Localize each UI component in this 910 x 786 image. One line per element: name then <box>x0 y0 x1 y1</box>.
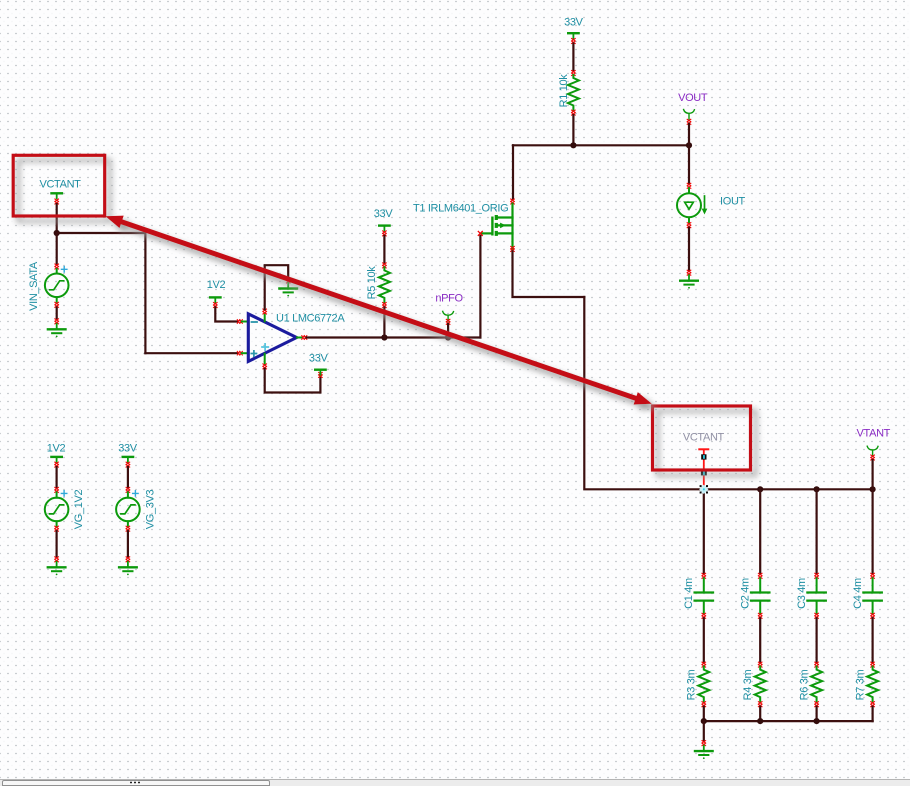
capacitor C2 <box>751 578 769 613</box>
svg-text:R5 10k: R5 10k <box>366 266 378 300</box>
ground at op-amp supply <box>279 283 297 297</box>
ground below VIN_SATA <box>48 324 66 338</box>
wire C1 to R3 <box>703 618 705 662</box>
node junction C4 top <box>870 486 876 492</box>
svg-text:C4 4m: C4 4m <box>852 578 864 609</box>
pin marks C1 bottom <box>702 613 706 618</box>
pin marks C1 top <box>702 573 706 578</box>
node junction R6 bottom <box>814 718 820 724</box>
wire 1V2 to op-amp minus input <box>215 308 237 322</box>
annotation red box around VCTANT top-left <box>13 155 105 216</box>
svg-text:IOUT: IOUT <box>720 196 746 208</box>
wire C4 branch top <box>871 489 873 573</box>
svg-text:VG_3V3: VG_3V3 <box>145 490 157 530</box>
svg-text:C1 4m: C1 4m <box>683 578 695 609</box>
wire R1 to node A <box>572 115 574 145</box>
op-amp U1 bottom supply stub <box>264 354 266 364</box>
pin mark T1 gate <box>478 231 482 235</box>
svg-text:1V2: 1V2 <box>47 443 66 455</box>
pin marks ground IOUT <box>687 270 691 275</box>
svg-text:1V2: 1V2 <box>207 279 226 291</box>
node 1V2 jumper above VG_1V2 <box>51 457 61 462</box>
svg-text:R1 10k: R1 10k <box>558 74 570 108</box>
capacitor C4 <box>863 578 881 613</box>
svg-text:VTANT: VTANT <box>857 428 891 440</box>
wire IOUT to ground <box>688 228 690 271</box>
svg-text:R6 3m: R6 3m <box>798 669 810 700</box>
svg-text:T1 IRLM6401_ORIG: T1 IRLM6401_ORIG <box>413 202 508 214</box>
wire VOUT node to IOUT <box>688 145 690 183</box>
pin marks ground VG_3V3 <box>126 557 130 562</box>
pin marks IOUT bottom <box>687 223 691 228</box>
pin marks R6 bottom <box>815 702 819 707</box>
op-amp U1 minus sign <box>252 321 258 323</box>
wire R7 to ground bus <box>871 707 873 721</box>
wire C4 to R7 <box>871 618 873 662</box>
pin marks 33V jumper R5 <box>383 231 387 236</box>
svg-text:33V: 33V <box>118 443 138 455</box>
capacitor C1 <box>695 578 713 613</box>
wire op-amp top supply to ground <box>265 265 289 309</box>
pin marks op-amp top supply <box>263 309 267 314</box>
wire VG_1V2 to ground <box>55 531 57 557</box>
svg-text:nPFO: nPFO <box>435 293 463 305</box>
resistor R7 <box>867 667 878 703</box>
node 33V jumper op-amp <box>315 370 325 375</box>
svg-text:R3 3m: R3 3m <box>686 669 698 700</box>
pin marks R4 bottom <box>758 702 762 707</box>
VIN_SATA plus sign <box>62 267 67 272</box>
wire node right <box>57 232 146 234</box>
wire gate riser <box>479 236 481 338</box>
pin marks R7 bottom <box>871 702 875 707</box>
annotation red box around VCTANT bottom <box>653 406 751 470</box>
resistor R6 <box>811 667 822 703</box>
pin marks R1 top <box>572 71 576 76</box>
wire C2 branch top <box>759 489 761 573</box>
wire node A to T1 drain <box>512 145 514 199</box>
pin marks R3 bottom <box>702 702 706 707</box>
bottom tab <box>2 780 270 786</box>
wire C1 branch top <box>703 489 705 573</box>
op-amp U1 output lead <box>297 337 302 339</box>
svg-text:VCTANT: VCTANT <box>683 432 725 444</box>
wire R4 to ground bus <box>759 707 761 721</box>
node junction nPFO <box>445 334 451 340</box>
pin marks 1V2 jumper VG_1V2 <box>55 462 59 467</box>
wire ground bus bottom <box>704 720 873 722</box>
wire T1 source down and right <box>513 251 585 297</box>
svg-text:R4 3m: R4 3m <box>742 669 754 700</box>
wire 33V to VG_3V3 <box>127 467 129 487</box>
pin marks 1V2 jumper <box>214 303 218 308</box>
node junction C2 top <box>757 486 763 492</box>
pin marks ground VIN_SATA <box>55 319 59 324</box>
pin marks T1 source <box>511 246 515 251</box>
op-amp U1 cyan plus marker <box>262 344 268 350</box>
node junction R1 bottom <box>570 142 576 148</box>
VG_3V3 plus sign <box>133 491 138 496</box>
wire 1V2 to VG_1V2 <box>55 467 57 487</box>
wire op-amp output bus <box>307 336 481 338</box>
pin marks ground VG_1V2 <box>55 557 59 562</box>
wire C3 branch top <box>815 489 817 573</box>
wire R6 to ground bus <box>815 707 817 721</box>
node VCTANT (bottom) selected jumper symbol <box>699 449 708 487</box>
wire C2 to R4 <box>759 618 761 662</box>
resistor R1 <box>568 75 579 111</box>
pin marks op-amp output <box>302 336 307 340</box>
svg-text:VG_1V2: VG_1V2 <box>73 490 85 530</box>
pin marks R7 top <box>871 662 875 667</box>
pin marks C3 top <box>815 573 819 578</box>
svg-text:VCTANT: VCTANT <box>39 179 81 191</box>
wire op-amp bottom supply to 33V <box>265 369 321 393</box>
svg-text:33V: 33V <box>309 353 329 365</box>
wire VTANT stem to bus <box>871 460 873 489</box>
ground below IOUT <box>680 275 698 289</box>
wire VG_3V3 to ground <box>127 531 129 557</box>
pin marks VG_1V2 + terminal <box>55 487 59 492</box>
IOUT direction arrow <box>702 196 708 215</box>
pin marks C4 bottom <box>871 613 875 618</box>
pin marks VCTANT jumper <box>55 199 59 204</box>
pin marks R5 bottom <box>383 303 387 308</box>
node VTANT Y symbol <box>867 446 878 456</box>
node junction at VIN_SATA top <box>54 230 60 236</box>
node junction R5 bottom <box>381 334 387 340</box>
op-amp U1 top supply stub <box>264 314 266 322</box>
node 33V jumper above VG_3V3 <box>123 457 133 462</box>
wire VOUT stem down <box>688 124 690 145</box>
selection cross at bus connection <box>699 485 708 494</box>
wire VCTANT jumper to node <box>56 204 58 233</box>
pin marks C4 top <box>871 573 875 578</box>
voltage source VIN_SATA <box>45 269 69 302</box>
node 33V jumper above R1 <box>568 33 578 38</box>
pin marks op-amp bottom supply <box>263 364 267 369</box>
pin marks R1 bottom <box>572 110 576 115</box>
wire ground stem bottom bank <box>703 721 705 741</box>
wire VCTANT bus to VTANT <box>704 488 873 490</box>
wire 33V to R1 <box>572 44 574 71</box>
node VCTANT (top-left) jumper symbol <box>52 193 62 198</box>
wire 33V to R5 <box>383 236 385 263</box>
pin marks op-amp plus input <box>237 351 242 355</box>
wire R3 to ground bus <box>703 707 705 721</box>
selection handle upper (VCTANT bottom) <box>701 454 706 459</box>
svg-text:VIN_SATA: VIN_SATA <box>28 261 40 311</box>
pin marks VIN_SATA - terminal <box>55 302 59 307</box>
bottom scrollbar strip <box>0 779 910 786</box>
pin marks 33V jumper VG_3V3 <box>126 462 130 467</box>
pin marks ground op-amp <box>286 278 290 283</box>
svg-text:33V: 33V <box>564 17 584 29</box>
pin marks VG_1V2 - terminal <box>55 526 59 531</box>
svg-text:U1 LMC6772A: U1 LMC6772A <box>276 313 345 325</box>
wire R5 to output bus <box>383 308 385 338</box>
pin marks R5 top <box>383 263 387 268</box>
VG_1V2 plus sign <box>61 491 66 496</box>
pin marks C3 bottom <box>815 613 819 618</box>
pin marks op-amp minus input <box>237 320 242 324</box>
node junction C3 top <box>814 486 820 492</box>
pin marks VG_3V3 + terminal <box>126 487 130 492</box>
resistor R5 <box>379 267 390 303</box>
voltage source VG_3V3 <box>116 492 140 526</box>
svg-text:VOUT: VOUT <box>678 92 708 104</box>
pin marks R3 top <box>702 662 706 667</box>
op-amp U1 triangle <box>248 314 296 362</box>
svg-text:C2 4m: C2 4m <box>739 578 751 609</box>
capacitor C3 <box>807 578 825 613</box>
wire nPFO stem to bus <box>447 324 449 338</box>
wire right to op-amp plus input <box>145 352 237 354</box>
pin marks T1 drain <box>511 199 515 204</box>
pin marks 33V jumper op-amp <box>319 372 323 377</box>
op-amp U1 plus input lead <box>242 352 249 354</box>
op-amp U1 plus sign <box>251 351 256 356</box>
pin marks VG_3V3 - terminal <box>126 526 130 531</box>
op-amp U1 minus input lead <box>242 321 249 323</box>
pin marks IOUT top <box>687 183 691 188</box>
node 1V2 jumper symbol <box>210 297 220 302</box>
wire VIN_SATA to ground <box>56 308 58 320</box>
annotation red arrow between VCTANT boxes <box>106 216 652 405</box>
pin marks R6 top <box>815 662 819 667</box>
resistor R3 <box>698 667 709 703</box>
node junction VOUT column <box>686 142 692 148</box>
pin marks C2 top <box>758 573 762 578</box>
pin marks VIN_SATA + terminal <box>55 264 59 269</box>
pin marks 33V jumper R1 <box>572 39 576 44</box>
pin marks nPFO <box>446 319 450 324</box>
tab gripper dots <box>129 781 141 784</box>
wire node A bus <box>513 144 689 146</box>
node junction R4 bottom <box>757 718 763 724</box>
current source IOUT <box>677 188 701 222</box>
pin marks C2 bottom <box>758 613 762 618</box>
node 33V jumper above R5 <box>379 226 389 231</box>
voltage source VG_1V2 <box>45 492 69 526</box>
ground below VG_3V3 <box>119 562 137 576</box>
svg-text:33V: 33V <box>374 208 394 220</box>
pin marks ground bank <box>702 741 706 746</box>
wire C3 to R6 <box>815 618 817 662</box>
node junction R3 bottom <box>701 718 707 724</box>
wire long riser to VCTANT bus <box>584 297 704 489</box>
resistor R4 <box>755 667 766 703</box>
wire node down to VIN_SATA <box>56 233 58 264</box>
ground below bank <box>695 746 713 760</box>
pin marks VOUT <box>687 119 691 124</box>
svg-text:R7 3m: R7 3m <box>854 669 866 700</box>
ground below VG_1V2 <box>48 562 66 576</box>
pin marks VTANT <box>871 455 875 460</box>
selection handle lower (VCTANT bottom) <box>701 470 707 476</box>
transistor T1 PMOS body <box>482 204 513 249</box>
svg-text:C3 4m: C3 4m <box>796 578 808 609</box>
wire down to op-amp plus level <box>144 233 146 353</box>
node VOUT Y symbol <box>684 110 695 120</box>
pin marks R4 top <box>758 662 762 667</box>
node nPFO Y symbol <box>443 311 454 321</box>
